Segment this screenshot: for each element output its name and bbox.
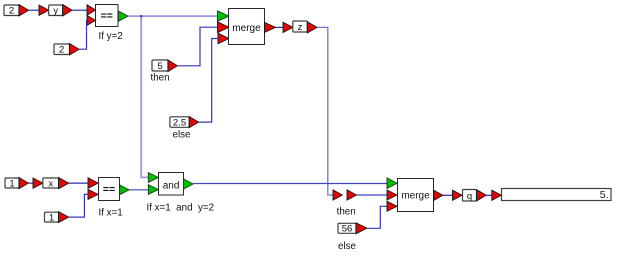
output port triangle of y	[63, 5, 72, 16]
svg-text:If x=1 and y=2: If x=1 and y=2	[147, 203, 215, 214]
operator box U3 and	[159, 173, 184, 196]
wire C4 to merge M1 input 3	[199, 39, 219, 123]
svg-text:==: ==	[103, 184, 115, 196]
output port triangle of C5	[19, 178, 28, 189]
then-row input triangle B	[347, 190, 357, 200]
green input port triangle 1 of merge M2	[387, 178, 397, 189]
wire C3 to merge M1 input 2	[177, 27, 217, 66]
svg-text:If y=2: If y=2	[99, 31, 123, 42]
svg-text:x: x	[48, 178, 53, 189]
green input port triangle 2 of and U3	[148, 185, 158, 195]
output port triangle of z	[307, 22, 317, 33]
svg-text:merge: merge	[401, 191, 430, 202]
constant C2 value 2	[54, 44, 70, 56]
output port triangle of C3	[168, 60, 177, 72]
svg-text:then: then	[151, 73, 170, 84]
output port triangle of M2	[434, 190, 443, 200]
green output port triangle of U3	[183, 179, 193, 189]
svg-text:1: 1	[9, 178, 14, 189]
input port triangle 1 of U1 ==	[87, 5, 96, 15]
then-row output triangle A	[333, 190, 342, 200]
output port triangle of x	[59, 178, 69, 189]
svg-text:y: y	[53, 6, 58, 17]
merge block M2	[398, 179, 434, 212]
svg-text:If x=1: If x=1	[99, 208, 123, 219]
green output port triangle of U2	[120, 185, 129, 195]
wire	[29, 9, 40, 11]
input port triangle of variable y	[39, 5, 49, 15]
wire y=2 net horizontal to merge M1	[128, 15, 218, 17]
wire	[443, 194, 453, 196]
constant C5 value 1	[5, 178, 19, 189]
svg-text:and: and	[163, 180, 180, 191]
constant C6 value 1	[45, 212, 59, 223]
junction	[140, 15, 142, 17]
variable box y	[49, 5, 63, 17]
svg-text:else: else	[173, 130, 192, 141]
constant C3 value 5	[152, 60, 168, 72]
output port triangle of C6	[59, 212, 69, 223]
output port triangle of M1	[265, 22, 276, 32]
wire	[276, 26, 284, 28]
output port triangle of C7	[356, 223, 367, 234]
output port triangle of q	[477, 190, 487, 201]
output port triangle of C4	[189, 117, 198, 128]
constant C1 value 2	[4, 5, 19, 17]
wire z net down to then-row	[317, 27, 333, 195]
input port triangle of display D1	[492, 190, 502, 200]
wire x=1 net to and block	[129, 189, 148, 191]
input port triangle 1 of U2 ==	[88, 178, 98, 189]
constant C7 value 56	[338, 223, 356, 234]
wire C6 to U2 input 2	[69, 194, 88, 217]
display box D1 value 5.	[502, 189, 612, 201]
svg-text:then: then	[337, 207, 356, 218]
input port triangle of variable x	[33, 178, 43, 188]
red input port triangle 3 of merge M2	[387, 201, 397, 211]
wire then-row to merge M2 input 2	[357, 194, 388, 196]
svg-text:1: 1	[49, 212, 54, 223]
variable box z	[293, 21, 308, 33]
wire	[486, 194, 492, 196]
svg-text:2: 2	[9, 6, 14, 17]
input port triangle of variable q	[453, 190, 463, 200]
operator box U1 == (If y=2)	[96, 5, 119, 27]
svg-text:2.5: 2.5	[173, 118, 186, 129]
svg-text:5.: 5.	[600, 189, 609, 201]
operator box U2 == (If x=1)	[99, 178, 120, 201]
variable box q	[463, 190, 477, 202]
variable box x	[43, 178, 59, 189]
wire C2 to U1 input 2	[79, 20, 87, 49]
svg-text:2: 2	[59, 45, 64, 56]
input port triangle 2 of U2 ==	[88, 189, 98, 199]
svg-text:merge: merge	[232, 23, 261, 34]
svg-text:==: ==	[101, 10, 113, 22]
svg-text:else: else	[338, 241, 357, 252]
svg-text:z: z	[298, 22, 303, 33]
svg-text:56: 56	[342, 224, 353, 235]
green input port triangle 1 of merge M1	[218, 11, 229, 21]
wire	[72, 9, 87, 11]
merge block M1	[229, 9, 265, 45]
wire	[28, 182, 33, 184]
wire C7 to merge M2 input 3	[367, 206, 387, 228]
wire y=2 net branch down to and block	[141, 16, 148, 177]
input port triangle of variable z	[283, 22, 293, 32]
constant C4 value 2.5	[170, 117, 189, 129]
output port triangle of C1	[19, 5, 29, 16]
output port triangle of C2	[70, 44, 80, 55]
input port triangle 2 of U1 ==	[87, 15, 96, 25]
red input port triangle 2 of merge M2	[387, 190, 397, 200]
svg-text:q: q	[467, 191, 472, 202]
svg-text:5: 5	[157, 61, 162, 72]
red input port triangle 3 of merge M1	[218, 33, 229, 44]
red input port triangle 2 of merge M1	[218, 22, 229, 33]
wire and net to merge M2	[193, 183, 387, 185]
green input port triangle 1 of and U3	[148, 173, 158, 183]
green output port triangle of U1	[119, 11, 129, 21]
wire	[69, 182, 88, 184]
